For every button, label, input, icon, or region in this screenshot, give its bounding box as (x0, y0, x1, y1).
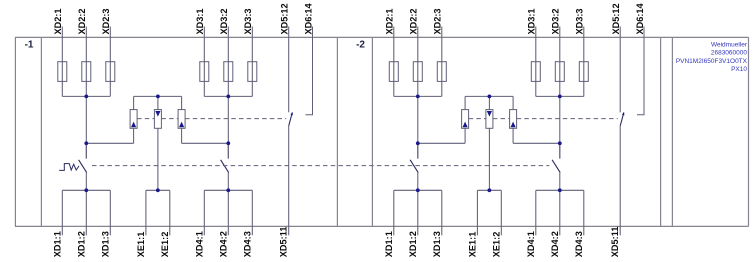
svg-text:XD4:2: XD4:2 (550, 231, 560, 257)
svg-text:XD3:2: XD3:2 (551, 8, 561, 34)
svg-text:XD4:3: XD4:3 (574, 231, 584, 257)
svg-text:XD2:3: XD2:3 (101, 8, 111, 34)
svg-text:XD6:14: XD6:14 (635, 2, 645, 34)
svg-text:XD4:1: XD4:1 (194, 231, 204, 257)
svg-text:XD6:14: XD6:14 (303, 2, 313, 34)
svg-text:XD4:3: XD4:3 (242, 231, 252, 257)
svg-text:XE1:1: XE1:1 (467, 232, 477, 257)
svg-text:XD4:1: XD4:1 (526, 231, 536, 257)
svg-text:XD5:12: XD5:12 (280, 3, 290, 34)
svg-text:XE1:2: XE1:2 (160, 232, 170, 257)
svg-text:XD2:1: XD2:1 (53, 8, 63, 34)
svg-text:XD1:3: XD1:3 (432, 231, 442, 257)
svg-text:XD1:2: XD1:2 (408, 231, 418, 257)
svg-text:PVN1M2I650F3V1O0TX: PVN1M2I650F3V1O0TX (676, 58, 748, 65)
svg-text:XD4:2: XD4:2 (218, 231, 228, 257)
svg-text:XD2:2: XD2:2 (409, 8, 419, 34)
svg-text:XD1:1: XD1:1 (384, 231, 394, 257)
svg-text:XD2:1: XD2:1 (385, 8, 395, 34)
svg-text:XD3:2: XD3:2 (219, 8, 229, 34)
svg-text:XD2:2: XD2:2 (77, 8, 87, 34)
svg-text:XD3:1: XD3:1 (195, 8, 205, 34)
svg-text:PX10: PX10 (731, 66, 747, 73)
svg-text:XD1:1: XD1:1 (52, 231, 62, 257)
svg-text:XD1:2: XD1:2 (76, 231, 86, 257)
svg-text:XD5:11: XD5:11 (610, 227, 620, 257)
svg-text:XD5:11: XD5:11 (279, 227, 289, 257)
svg-text:XE1:2: XE1:2 (491, 232, 501, 257)
svg-text:XD3:1: XD3:1 (527, 8, 537, 34)
svg-text:2683060000: 2683060000 (711, 50, 748, 57)
svg-text:XD1:3: XD1:3 (100, 231, 110, 257)
svg-text:XD3:3: XD3:3 (575, 8, 585, 34)
svg-text:XD3:3: XD3:3 (243, 8, 253, 34)
svg-text:XD2:3: XD2:3 (433, 8, 443, 34)
svg-text:Weidmueller: Weidmueller (711, 42, 748, 49)
svg-text:-2: -2 (356, 40, 365, 51)
svg-text:XE1:1: XE1:1 (136, 232, 146, 257)
svg-text:-1: -1 (25, 40, 34, 51)
svg-text:XD5:12: XD5:12 (611, 3, 621, 34)
